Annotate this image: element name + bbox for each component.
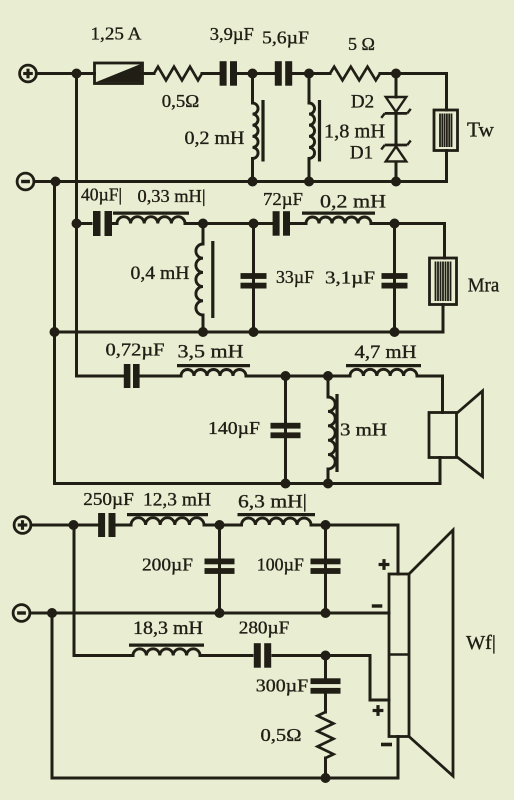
svg-text:0,4 mH: 0,4 mH <box>131 263 190 284</box>
svg-text:0,2 mH: 0,2 mH <box>185 128 245 149</box>
svg-text:3 mH: 3 mH <box>340 420 387 440</box>
svg-text:72µF: 72µF <box>263 189 303 209</box>
svg-text:0,33 mH|: 0,33 mH| <box>138 186 206 206</box>
svg-text:D1: D1 <box>350 143 373 164</box>
svg-text:0,72µF: 0,72µF <box>106 340 165 360</box>
svg-text:5 Ω: 5 Ω <box>348 34 375 54</box>
svg-text:D2: D2 <box>351 92 374 113</box>
svg-text:18,3 mH: 18,3 mH <box>133 618 203 639</box>
svg-text:40µF|: 40µF| <box>81 185 122 205</box>
svg-text:0,5Ω: 0,5Ω <box>162 91 200 111</box>
svg-text:4,7 mH: 4,7 mH <box>355 342 417 363</box>
svg-text:3,1µF: 3,1µF <box>325 268 375 288</box>
svg-text:280µF: 280µF <box>239 618 290 638</box>
svg-text:Tw: Tw <box>467 118 495 142</box>
svg-text:Wf|: Wf| <box>466 632 496 654</box>
svg-text:3,9µF: 3,9µF <box>210 24 254 44</box>
svg-text:250µF: 250µF <box>83 489 134 509</box>
svg-text:1,8 mH: 1,8 mH <box>324 121 385 143</box>
svg-text:6,3 mH|: 6,3 mH| <box>238 492 307 513</box>
svg-text:300µF: 300µF <box>256 676 309 696</box>
svg-text:12,3 mH: 12,3 mH <box>143 490 211 511</box>
svg-text:3,5 mH: 3,5 mH <box>178 342 244 363</box>
svg-text:0,5Ω: 0,5Ω <box>261 725 302 745</box>
svg-text:5,6µF: 5,6µF <box>262 27 309 47</box>
svg-text:Mra: Mra <box>468 275 500 297</box>
svg-text:0,2 mH: 0,2 mH <box>320 192 386 213</box>
svg-text:140µF: 140µF <box>208 418 260 438</box>
svg-text:200µF: 200µF <box>142 555 193 575</box>
svg-text:33µF: 33µF <box>276 267 314 287</box>
svg-text:100µF: 100µF <box>257 555 304 575</box>
svg-text:1,25 A: 1,25 A <box>91 24 142 44</box>
